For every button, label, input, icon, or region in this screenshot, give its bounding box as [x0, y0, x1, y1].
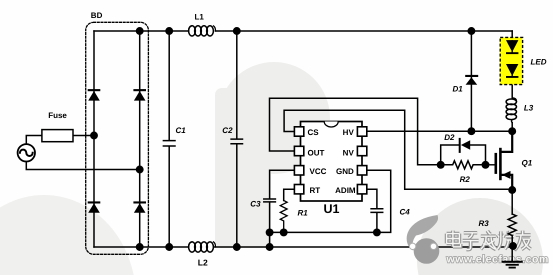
svg-text:LED: LED	[531, 57, 547, 66]
svg-text:C1: C1	[176, 126, 187, 135]
svg-text:C3: C3	[250, 199, 261, 208]
svg-text:RT: RT	[310, 186, 321, 195]
svg-text:CS: CS	[308, 128, 320, 137]
svg-text:VCC: VCC	[310, 167, 327, 176]
svg-text:R1: R1	[298, 208, 309, 217]
svg-text:C2: C2	[222, 126, 233, 135]
svg-text:HV: HV	[343, 128, 355, 137]
svg-text:Q1: Q1	[522, 159, 533, 168]
svg-text:D2: D2	[444, 133, 455, 142]
svg-text:GND: GND	[336, 167, 354, 176]
svg-text:C4: C4	[400, 207, 411, 216]
svg-text:Fuse: Fuse	[48, 111, 67, 120]
svg-text:R2: R2	[460, 175, 471, 184]
svg-text:U1: U1	[324, 202, 340, 216]
svg-text:www.elecfans.com: www.elecfans.com	[446, 254, 549, 266]
svg-text:L2: L2	[198, 258, 208, 268]
svg-text:NV: NV	[343, 149, 355, 158]
svg-text:L1: L1	[195, 13, 205, 22]
svg-text:D1: D1	[453, 84, 464, 93]
svg-text:OUT: OUT	[308, 149, 325, 158]
svg-text:ADIM: ADIM	[335, 186, 356, 195]
svg-text:R3: R3	[479, 219, 490, 228]
svg-text:BD: BD	[91, 11, 103, 20]
svg-text:L3: L3	[524, 104, 534, 113]
